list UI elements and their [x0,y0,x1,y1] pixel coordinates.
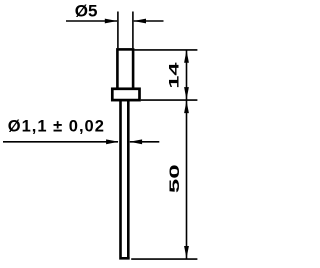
svg-text:50: 50 [167,164,182,193]
arrow down at rod bottom [184,246,189,259]
svg-text:14: 14 [166,62,182,88]
extension line at rod bottom (for 50) [131,258,197,260]
vertical dimension line 14 and 50 [186,50,188,258]
pin body (diameter 5 cylinder) [117,49,133,89]
extension line left of diameter 5 [117,12,119,49]
extension line at flange bottom (for 14 / 50) [141,99,198,101]
dimension line diameter 5, right part with left arrow [134,20,164,22]
extension line at pin top (for 14) [134,49,197,51]
extension line right of diameter 5 [132,12,134,49]
flange collar [112,89,139,100]
svg-text:Ø1,1 ± 0,02: Ø1,1 ± 0,02 [8,117,105,135]
arrow up at pin top [184,50,189,63]
arrow up at flange bottom (50) [184,101,189,114]
rod (diameter 1,1 stem) [119,100,130,258]
arrow down at flange bottom (14) [184,87,189,100]
leader line diameter 1,1 with right arrow [3,141,118,143]
dimension line diameter 5, left part with right arrow [66,20,117,22]
short line right of rod with left arrow [130,141,160,143]
svg-text:Ø5: Ø5 [75,1,98,20]
